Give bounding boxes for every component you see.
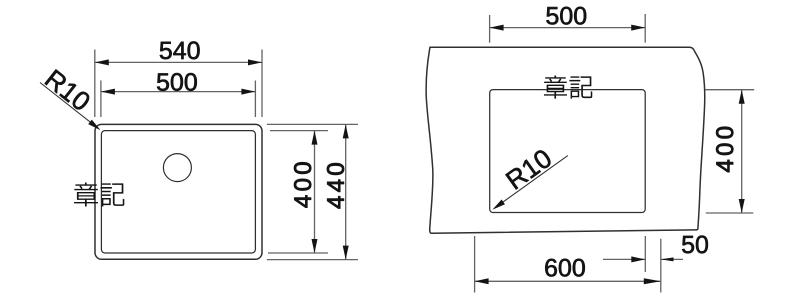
R10 corner radius callout, left view [40, 69, 102, 132]
dimension 400 : cut-out height, right view, vertical [705, 90, 754, 213]
cut-out rectangle (right view) [490, 90, 646, 213]
dimension 440 : overall depth, left view, vertical [267, 124, 358, 259]
label 章記 (left view) [74, 182, 124, 206]
dimension 600 : minimum cabinet width, right view [475, 236, 661, 293]
sink bowl inner edge (left view) [101, 131, 255, 253]
dimension 500 : bowl width, left view [101, 73, 256, 117]
countertop panel outline (right view) [426, 47, 705, 233]
dimension 50 : edge distance, right view [603, 236, 708, 293]
R10 corner radius callout, right view [491, 148, 568, 212]
sink outer rim (left view) [95, 124, 262, 259]
drain hole circle [163, 154, 191, 182]
dimension 540 : overall width, left view [95, 42, 262, 118]
label 章記 (right view) [544, 76, 592, 99]
dimension 500 : cut-out width, right view [490, 7, 646, 43]
dimension 400 : bowl depth, left view, vertical [268, 131, 328, 253]
